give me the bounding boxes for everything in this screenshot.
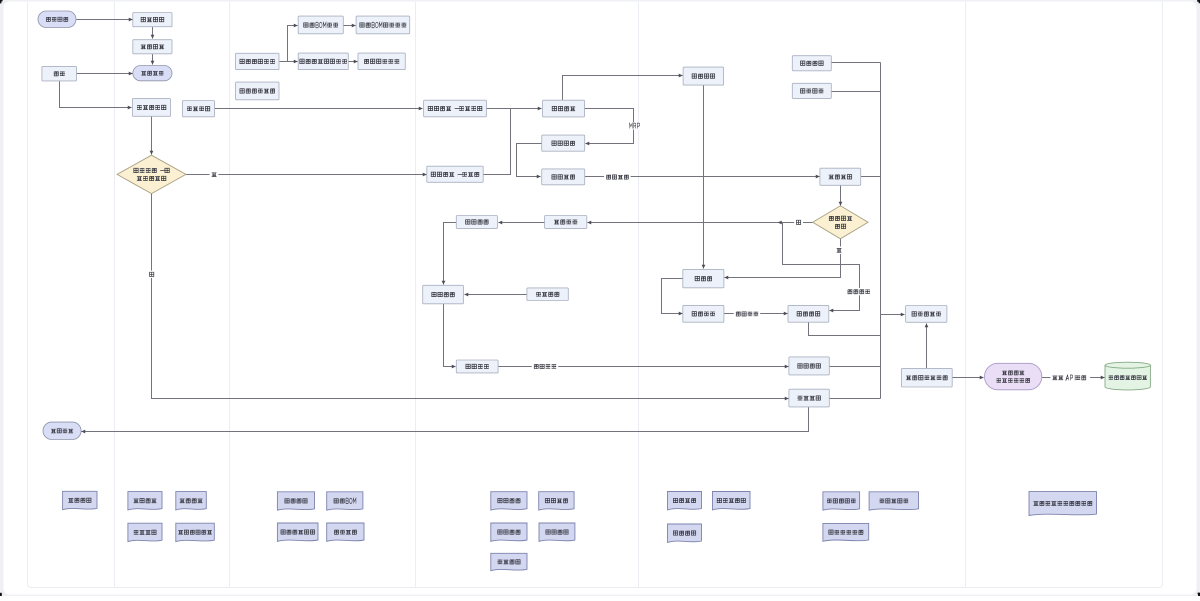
wire 采购入库→汇总线 [809, 323, 881, 336]
node 采购单 [683, 269, 724, 287]
node 产品工艺路线维护 [298, 53, 348, 70]
wire 产品信息维护→产品工艺路线维护 [280, 61, 298, 63]
node 生产完成 [456, 360, 498, 373]
wire 生产计划-销售单→join [484, 109, 511, 175]
node 采购入库 [788, 305, 829, 322]
wire 采购申请→采购单 [703, 86, 705, 269]
wire 销售单成立→库存比对 [151, 117, 153, 155]
wire 采购完成→采购入库 (入库核验) [724, 313, 788, 315]
wire 销售预测→生产计划-销售预测 [215, 108, 423, 110]
label 发起领料 [604, 173, 631, 180]
node 生产计划-销售单 [427, 166, 483, 182]
node 生产任务 [542, 135, 585, 151]
document 各类出库表 [869, 492, 918, 510]
node 库存调拨 [792, 83, 831, 98]
document 订单管理 [176, 492, 207, 510]
document 销售出库(单据) [128, 523, 162, 541]
document 采购订单 [668, 492, 702, 510]
document 生产入库(单据) [539, 523, 575, 541]
node 领料完成 [545, 216, 587, 229]
document 生产领料(单据) [539, 492, 574, 510]
lane divider [638, 2, 640, 587]
wire 出入库行为记录→库存管理表 [926, 324, 928, 369]
wire 生产任务→生产领料 [517, 144, 542, 177]
wire 销售出库→客户验收 [82, 407, 809, 432]
node 生产入库 [789, 357, 829, 375]
wire 生产计划-销售预测→生产计划 [487, 108, 542, 110]
document 生产报工(单据) [491, 523, 527, 541]
lane divider [965, 2, 967, 587]
node 生产工单 [456, 216, 497, 229]
wire 产品信息维护→产品BOM维护 [288, 26, 298, 62]
wire 购买意向→线索跟进 [77, 19, 133, 21]
node 生产报工 [423, 285, 464, 304]
lane divider [415, 2, 417, 587]
node 销售出库 [789, 389, 829, 407]
wire 生产入库→汇总线 [830, 366, 881, 368]
wire 销售出库→汇总线 [830, 398, 881, 400]
decision 库存比对-是否直接出库 [117, 155, 186, 193]
wire 产品BOM维护→产品BOM价值预估 [344, 25, 356, 27]
wire 领料完成→生产工单 [499, 222, 545, 224]
wire 汇总线→库存管理表 [881, 314, 905, 316]
wire 汇总主干线 [880, 63, 882, 399]
node 产品BOM维护 [298, 16, 343, 34]
wire 期初入库→汇总线 [832, 62, 881, 64]
wire 生产完成→生产入库 (入库检验) [499, 366, 789, 368]
wire 业务单据pill→第三方财务软件 [1042, 377, 1105, 379]
node 库存管理表 [906, 306, 947, 323]
document 供应商报价 [713, 492, 751, 510]
wire 生产工单→生产报工 [444, 223, 457, 285]
document 订单信息 [63, 491, 97, 509]
node 产品方案设计 [236, 82, 280, 100]
terminal 客户验收 [43, 422, 81, 439]
document 各类入库表 [823, 492, 860, 510]
wire 产品工艺路线维护→工序价格维护 [349, 61, 358, 63]
node 委外报工 [527, 288, 568, 301]
node 售前沟通 [133, 40, 172, 54]
wire 委外报工→生产报工 [465, 294, 527, 296]
join arrow 物料追加汇入 [778, 222, 780, 224]
document 生产工单(单据) [491, 492, 527, 510]
wire 采购单→采购完成 [662, 279, 683, 314]
lane divider [229, 2, 231, 587]
decision 物料是否充足 [813, 206, 868, 239]
label 否 (物料是否充足) [835, 247, 844, 254]
wire 领料出库→汇总线 [861, 176, 881, 178]
lane divider [114, 2, 116, 587]
document 方案设计 [327, 523, 364, 541]
node 生产领料 [542, 169, 585, 185]
document 库存变更记录 [823, 523, 869, 541]
node 出入库行为记录 [901, 368, 952, 387]
node 采购完成 [683, 305, 724, 322]
label 插件/API同步 [1050, 374, 1090, 381]
label 是 (库存比对) [147, 271, 156, 278]
wire 物料追加 [783, 223, 860, 311]
node 销售单成立 [132, 99, 170, 117]
wire 领料出库→物料是否充足 [840, 186, 842, 206]
wire 库存调拨→汇总线 [832, 91, 881, 93]
label 是 (物料是否充足) [794, 219, 803, 226]
node 产品BOM价值预估 [356, 16, 410, 34]
screenshot corner artifact top-left [0, 0, 3, 3]
label 入库检验 [532, 363, 559, 370]
label MRP [628, 122, 642, 129]
wire 库存比对→生产计划-销售单 (否) [186, 174, 427, 176]
terminal 订单达成 [133, 66, 172, 81]
document 采购入库(单据) [668, 524, 702, 542]
node 领料出库 [820, 168, 861, 185]
node 生产计划-销售预测 [424, 100, 487, 117]
screenshot corner artifact bottom-right [1198, 593, 1200, 596]
document 客户管理 [128, 492, 162, 510]
label 入库核验 [734, 310, 761, 317]
node 期初入库 [792, 56, 831, 71]
screenshot corner artifact bottom-left [0, 593, 2, 596]
terminal 业务单据应收应付记录 [985, 363, 1042, 390]
node 工序价格维护 [358, 53, 405, 70]
node 生产计划 [543, 100, 585, 117]
wire 生产计划→生产任务 (MRP) [585, 109, 634, 144]
wire 生产报工→生产完成 [444, 304, 456, 367]
wire 物料是否充足→采购单 (否) [725, 239, 841, 278]
node 销售预测 [182, 101, 214, 117]
wire 售前沟通→订单达成 [152, 54, 154, 65]
node 线索跟进 [133, 13, 172, 27]
screenshot corner artifact top-right [1197, 0, 1200, 3]
wire 购买→销售单成立 [60, 81, 132, 108]
document 业务应收应付金额记录 [1029, 492, 1097, 516]
node 产品信息维护 [236, 53, 280, 69]
document 产品工艺路线 [277, 523, 318, 541]
wire 生产领料→领料出库 (发起领料) [585, 176, 820, 178]
node 购买 [42, 66, 77, 81]
node 采购申请 [683, 67, 724, 85]
terminal 购买意向 [38, 11, 76, 28]
wire 物料是否充足→领料完成 (是) [588, 222, 813, 224]
wire 生产计划→采购申请 [563, 76, 683, 101]
wire 购买→订单达成 [77, 73, 133, 75]
database 第三方财务软件 [1105, 362, 1150, 390]
document 委外入库 [491, 553, 527, 570]
document 产品BOM [327, 492, 363, 510]
document 产品信息 [277, 492, 314, 510]
label 否 (库存比对) [210, 171, 219, 178]
wire 出入库行为记录→业务单据pill [953, 377, 984, 379]
wire 线索跟进→售前沟通 [152, 27, 154, 39]
document 客户报价管理 [176, 523, 215, 541]
wire 库存比对→销售出库 (是) [152, 194, 789, 399]
label 物料追加 [845, 288, 872, 295]
